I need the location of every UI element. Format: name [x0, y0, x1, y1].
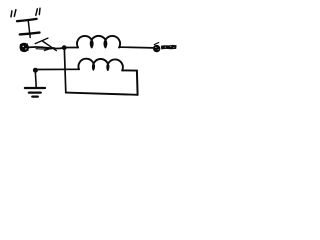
wire coil L2 to right corner: [122, 69, 137, 71]
dark bar component right: [161, 45, 177, 50]
wire bottom: [66, 93, 138, 95]
wire coil L1 to right blob: [119, 46, 153, 49]
node junction dot B: [33, 68, 38, 73]
arrow diagonal: [42, 41, 56, 51]
ground bar 3: [32, 95, 38, 97]
blob scribble right: [153, 45, 160, 52]
wire dot B down to ground: [34, 73, 37, 87]
node junction dot A: [62, 45, 67, 50]
wire vertical from dot A down: [64, 50, 65, 93]
wire right vertical: [136, 71, 139, 95]
right blob tick: [154, 43, 159, 45]
inductor L2: [78, 59, 122, 71]
blob scribble left: [20, 43, 29, 52]
wire dot B to coil L2: [38, 68, 79, 70]
capacitor C1 stem: [28, 20, 30, 37]
inductor L1: [77, 36, 120, 48]
ground bar 1: [25, 87, 45, 89]
ditto marks left of capacitor symbol: [11, 10, 16, 17]
arrow tick: [44, 48, 54, 51]
ground bar 2: [29, 91, 41, 93]
capacitor C1 top plate: [17, 19, 37, 21]
arrow shaft wire: [29, 47, 63, 48]
ditto marks right of capacitor symbol: [36, 8, 40, 15]
arrow whisker: [35, 38, 48, 44]
capacitor C1 bottom plate: [20, 33, 40, 35]
wire dot A to coil L1: [66, 47, 78, 49]
